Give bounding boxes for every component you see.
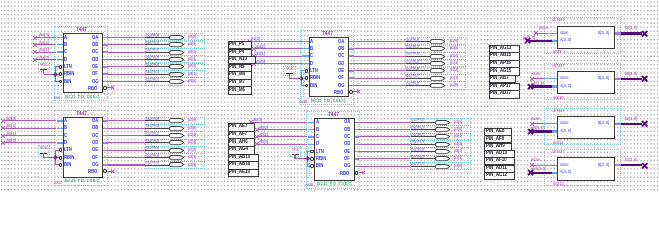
selection box <box>54 110 108 186</box>
location label PIN_AG13 <box>489 45 520 54</box>
symbol body <box>309 37 349 97</box>
IC inst: 7447 BCD-to-7seg decoder <box>0 0 1 1</box>
input pin store <box>560 163 569 168</box>
location label PIN_AH6 <box>228 138 256 147</box>
input pin D <box>64 57 67 63</box>
active-low input pin LTN <box>316 149 324 155</box>
VCC power symbol (chip inst9) <box>0 0 1 1</box>
bus b3[3..0] from inst10 B[3..0] <box>0 0 1 1</box>
output pin OB <box>344 127 350 133</box>
instance name inst12 <box>553 141 564 146</box>
wire jha[0] to inst pin D <box>0 0 1 1</box>
output pin OA <box>92 35 98 41</box>
part name ctr7447 <box>552 18 564 23</box>
pin location assignment stack 3 <box>0 0 1 1</box>
pin location assignment stack 2 <box>0 0 1 1</box>
input pin B <box>64 125 67 131</box>
output pin OE <box>338 68 344 74</box>
location label PIN_AF10 <box>484 157 515 165</box>
input pin C <box>310 53 313 59</box>
output pin p0[0] <box>0 0 1 1</box>
output bus pin B[3..0] <box>598 31 609 36</box>
output pin OG <box>338 83 345 89</box>
selection box <box>544 17 621 54</box>
output pin OB <box>338 46 344 52</box>
wire jra[1] to inst8 pin C <box>0 0 1 1</box>
bus jwb[3..0], to inst10 A[3..0] <box>0 0 1 1</box>
location label PIN_AF7 <box>228 131 256 140</box>
VCC power symbol (chip inst) <box>0 0 1 1</box>
active-low input pin RBIN <box>64 155 74 161</box>
VCC power symbol (chip inst8) <box>0 0 1 1</box>
IC inst9: 7447 BCD-to-7seg decoder <box>0 0 1 1</box>
output pin OB <box>92 42 98 48</box>
input pin D <box>64 140 67 146</box>
location label PIN_AB7 <box>489 75 517 84</box>
location label PIN_AB19 <box>228 154 259 163</box>
output pin OF <box>344 156 350 162</box>
active-low output pin RBO <box>88 169 97 175</box>
instance name inst9 <box>305 183 313 188</box>
wire jrb[3] to inst9 pin A <box>0 0 1 1</box>
output pin OA <box>344 119 350 125</box>
wire jstore to inst13 <box>0 0 1 1</box>
location label PIN_M7 <box>228 79 253 87</box>
active-low input pin LTN <box>64 64 72 70</box>
active-low input pin RBIN <box>64 71 74 77</box>
location label PIN_P5 <box>228 41 253 49</box>
output pin OG <box>92 79 99 85</box>
output pin p2[5] <box>0 0 1 1</box>
wire jha[1] to inst pin C <box>0 0 1 1</box>
output pin OG <box>344 163 351 169</box>
output pin p0[5] <box>0 0 1 1</box>
input pin B <box>64 42 67 48</box>
output pin OD <box>92 57 98 63</box>
symbol label BCD TO 7SEG <box>65 95 100 100</box>
part name 7447 <box>76 27 87 33</box>
output pin p1[5] <box>0 0 1 1</box>
junction dot <box>53 72 58 77</box>
input pin D <box>310 61 313 67</box>
location label PIN_M8 <box>228 71 253 79</box>
output pin OB <box>92 125 98 131</box>
symbol body <box>557 71 614 94</box>
location label PIN_AC12 <box>484 172 515 180</box>
block inst3: ctr7447 <box>0 0 1 1</box>
active-low input pin BIN <box>64 79 71 85</box>
part name ctr7447 <box>552 64 564 69</box>
output pin p0[2] <box>0 0 1 1</box>
active-low input pin BIN <box>64 162 71 168</box>
output pin p1[1] <box>0 0 1 1</box>
junction dot <box>53 155 58 160</box>
output pin OD <box>344 141 350 147</box>
output bus pin B[3..0] <box>598 121 609 126</box>
output pin p1[3] <box>0 0 1 1</box>
symbol body <box>557 116 614 139</box>
active-low input pin LTN <box>310 68 318 74</box>
wire jstore to inst10 <box>0 0 1 1</box>
part name 7447 <box>328 112 339 118</box>
location label PIN_AG4 <box>228 146 256 155</box>
block inst10: ctr7447 <box>0 0 1 1</box>
selection box <box>544 63 621 100</box>
output pin OC <box>92 49 98 55</box>
output pin OD <box>338 61 344 67</box>
output pin p3[3] <box>0 0 1 1</box>
symbol label BCD TO 7SEG <box>65 179 100 184</box>
output pin OC <box>338 53 344 59</box>
selection box around tie wire <box>306 150 310 178</box>
output pin p2[1] <box>0 0 1 1</box>
input pin C <box>64 49 67 55</box>
output pin p2[6] <box>0 0 1 1</box>
IC inst8: 7447 BCD-to-7seg decoder <box>0 0 1 1</box>
location label PIN_AG15 <box>489 67 520 76</box>
instance name inst <box>54 96 60 101</box>
output pin p3[1] <box>0 0 1 1</box>
output pin p2[2] <box>0 0 1 1</box>
symbol label BCD TO 7SEG <box>311 99 346 104</box>
location label PIN_AD17 <box>489 90 520 99</box>
wire jha[3] to inst pin A <box>0 0 1 1</box>
block inst12: ctr7447 <box>0 0 1 1</box>
output pin OE <box>92 64 98 70</box>
output pin OF <box>92 71 98 77</box>
wire jhb[0] to inst7 pin D <box>0 0 1 1</box>
active-low input pin LTN <box>64 147 72 153</box>
output bus pin B[3..0] <box>598 163 609 168</box>
active-low output pin RBO <box>88 86 97 92</box>
input pin store <box>560 76 569 81</box>
output pin p3[0] <box>0 0 1 1</box>
location label PIN_M6 <box>228 86 253 94</box>
output pin p0[3] <box>0 0 1 1</box>
bus b2[3..0] from inst12 B[3..0] <box>0 0 1 1</box>
wire VCC to LTN/RBIN/BIN tie <box>0 0 1 1</box>
junction dot <box>299 76 304 81</box>
location label PIN_AP16 <box>489 60 520 69</box>
part name ctr7447 <box>552 150 564 155</box>
symbol body <box>63 117 103 178</box>
part name ctr7447 <box>552 109 564 114</box>
wire jstore to inst12 <box>0 0 1 1</box>
output pin p1[2] <box>0 0 1 1</box>
location label PIN_P4 <box>228 49 253 57</box>
wire VCC to LTN/RBIN/BIN tie <box>0 0 1 1</box>
location label PIN_AH9 <box>484 143 512 151</box>
location label PIN_AP17 <box>489 83 520 92</box>
location label PIN_AF9 <box>484 135 512 143</box>
input pin C <box>316 134 319 140</box>
VCC power symbol (chip inst7) <box>0 0 1 1</box>
input pin A <box>310 39 313 45</box>
location label PIN_AE19 <box>228 169 259 178</box>
active-low output pin RBO <box>334 90 343 96</box>
location label PIN_AD10 <box>484 150 515 158</box>
instance name inst8 <box>299 100 307 105</box>
input pin C <box>64 133 67 139</box>
output pin OA <box>92 118 98 124</box>
location label PIN_N10 <box>228 56 256 64</box>
output pin p3[4] <box>0 0 1 1</box>
output pin OG <box>92 162 99 168</box>
wire jhb[3] to inst7 pin A <box>0 0 1 1</box>
bus jwvb[3..0], to inst13 A[3..0] <box>0 0 1 1</box>
wire jra[0] to inst8 pin D <box>0 0 1 1</box>
wire VCC to LTN/RBIN/BIN tie <box>0 0 1 1</box>
wire jha[2] to inst pin B <box>0 0 1 1</box>
output pin OD <box>92 140 98 146</box>
junction dot <box>305 156 310 161</box>
part name 7447 <box>76 111 87 117</box>
input bus pin A[3..0] <box>560 38 571 43</box>
instance name inst13 <box>553 182 564 187</box>
output pin OC <box>344 134 350 140</box>
output pin p2[4] <box>0 0 1 1</box>
wire VCC to LTN/RBIN/BIN tie <box>0 0 1 1</box>
output bus pin B[3..0] <box>598 76 609 81</box>
selection box <box>544 108 621 145</box>
wire jstore to inst3 <box>0 0 1 1</box>
symbol body <box>314 118 354 181</box>
symbol body <box>63 33 103 93</box>
location label PIN_AE7 <box>228 123 256 132</box>
selection box <box>544 149 621 186</box>
output pin p0[1] <box>0 0 1 1</box>
output pin p1[6] <box>0 0 1 1</box>
instance name inst3 <box>553 50 561 55</box>
symbol label BCD TO 7SEG <box>317 182 352 187</box>
pin location assignment stack 1 <box>0 0 1 1</box>
output pin p3[6] <box>0 0 1 1</box>
block inst13: ctr7447 <box>0 0 1 1</box>
wire jrb[1] to inst9 pin C <box>0 0 1 1</box>
location label PIN_AB15 <box>489 52 520 61</box>
active-low output pin RBO <box>340 171 349 177</box>
active-low input pin BIN <box>310 83 317 89</box>
bus b1[3..0] from inst13 B[3..0] <box>0 0 1 1</box>
input pin A <box>64 35 67 41</box>
input pin A <box>64 118 67 124</box>
location label PIN_AB18 <box>228 161 259 170</box>
instance name inst10 <box>553 96 564 101</box>
selection box <box>300 30 354 105</box>
output pin OF <box>338 75 344 81</box>
symbol body <box>557 26 614 49</box>
active-low input pin RBIN <box>316 156 326 162</box>
output pin p0[4] <box>0 0 1 1</box>
location label PIN_AE8 <box>484 128 512 136</box>
output pin p1[4] <box>0 0 1 1</box>
bus b4[3..0] from inst3 B[3..0] <box>0 0 1 1</box>
selection box <box>54 26 108 101</box>
active-low input pin RBIN <box>310 75 320 81</box>
IC inst7: 7447 BCD-to-7seg decoder <box>0 0 1 1</box>
output pin p3[2] <box>0 0 1 1</box>
selection box around tie wire <box>300 70 304 98</box>
part name 7447 <box>322 31 333 37</box>
output pin p1[0] <box>0 0 1 1</box>
input pin store <box>560 31 569 36</box>
symbol body <box>557 157 614 180</box>
wire jrb[2] to inst9 pin B <box>0 0 1 1</box>
wire jhb[2] to inst7 pin B <box>0 0 1 1</box>
location label PIN_N9 <box>228 64 253 72</box>
wire jra[2] to inst8 pin B <box>0 0 1 1</box>
output pin OE <box>344 149 350 155</box>
input pin A <box>316 119 319 125</box>
output pin p2[3] <box>0 0 1 1</box>
output pin p0[6] <box>0 0 1 1</box>
wire jhb[1] to inst7 pin C <box>0 0 1 1</box>
selection box <box>306 111 360 189</box>
input bus pin A[3..0] <box>560 129 571 134</box>
wire jrb[0] to inst9 pin D <box>0 0 1 1</box>
input pin B <box>310 46 313 52</box>
location label PIN_AD11 <box>484 165 515 173</box>
wire jra[3] to inst8 pin A <box>0 0 1 1</box>
input pin D <box>316 141 319 147</box>
input bus pin A[3..0] <box>560 84 571 89</box>
output pin OF <box>92 155 98 161</box>
input pin store <box>560 121 569 126</box>
input pin B <box>316 127 319 133</box>
output pin OC <box>92 133 98 139</box>
output pin p3[5] <box>0 0 1 1</box>
instance name inst7 <box>54 181 62 186</box>
output pin p2[0] <box>0 0 1 1</box>
bus pja[3..0] to inst3 A[3..0] <box>0 0 1 1</box>
output pin OE <box>92 147 98 153</box>
output pin OA <box>338 39 344 45</box>
active-low input pin BIN <box>316 163 323 169</box>
bus jwp[3..0], to inst12 A[3..0] <box>0 0 1 1</box>
input bus pin A[3..0] <box>560 170 571 175</box>
pin location assignment stack 4 <box>0 0 1 1</box>
